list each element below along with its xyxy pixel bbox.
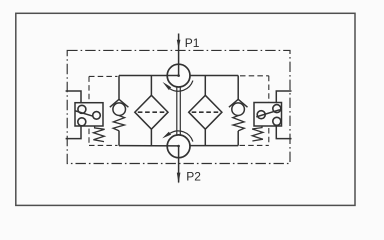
wire: upper rail left — [119, 75, 179, 77]
S1 contact right — [93, 112, 101, 120]
rotation arrow lower (arc) — [170, 131, 193, 142]
filter assembly boundary (dashed box) bottom-left segment — [89, 144, 118, 146]
wire: port P1 line — [178, 34, 180, 76]
rotation arrow upper (arc) — [170, 81, 193, 92]
wire: left check valve bottom lead — [118, 131, 120, 146]
border frame — [16, 13, 355, 205]
changeover valve spindle (twin lines) — [177, 87, 181, 135]
wire: left switch lower stub — [66, 126, 81, 139]
wire: right check valve top lead — [237, 76, 239, 100]
filter F1 (left diamond) — [135, 95, 168, 129]
wire: right switch lower stub — [276, 126, 291, 139]
S1 switch blade — [75, 111, 93, 116]
filter assembly boundary (dashed box) top-left segment — [89, 75, 118, 77]
filter F2 (right diamond) — [189, 95, 222, 129]
wire: right switch upper stub — [276, 91, 291, 103]
S2 switch blade — [256, 110, 280, 117]
flow arrow P2 (down) — [177, 173, 181, 184]
S1 contact bottom-left — [78, 118, 86, 126]
wire: F2 top lead — [204, 76, 206, 96]
check valve left ball — [113, 103, 126, 116]
S2 contact bottom-right — [273, 117, 281, 125]
S2 contact left — [257, 111, 265, 119]
filter F1 element (dashed line) — [138, 111, 165, 113]
changeover valve upper port circle — [167, 64, 190, 87]
rotation arrow upper (head) — [163, 82, 172, 90]
check valve right ball — [232, 103, 245, 116]
wire: F1 bottom lead — [150, 129, 152, 145]
check valve left spring — [113, 116, 125, 131]
wire: port P2 line — [178, 146, 180, 182]
check valve left seat — [110, 99, 129, 107]
rotation arrow lower (head) — [162, 132, 171, 139]
flow arrow P1 (down) — [177, 40, 181, 49]
wire: lower rail right — [190, 145, 238, 147]
wire: left check valve top lead — [118, 76, 120, 100]
filter assembly boundary (dashed box) bottom-right segment — [240, 144, 269, 146]
S1 contact top-left — [78, 105, 86, 113]
enclosure boundary (dash-dot box) — [67, 50, 290, 163]
pressure switch S1 body — [75, 103, 103, 126]
svg-text:P1: P1 — [185, 36, 200, 50]
wire: upper rail right — [190, 75, 238, 77]
filter F2 element (dashed line) — [192, 111, 219, 113]
wire: lower rail left — [119, 145, 179, 147]
S2 spring — [252, 126, 263, 141]
wire: right check valve bottom lead — [237, 131, 239, 146]
wire: left switch upper stub — [66, 91, 81, 103]
changeover valve lower port circle — [167, 135, 190, 158]
filter assembly boundary (dashed box) left edge — [88, 76, 90, 145]
junction: upper valve center — [177, 74, 180, 77]
wire: F1 top lead — [150, 76, 152, 96]
filter assembly boundary (dashed box) right edge — [268, 76, 270, 146]
check valve right seat — [229, 99, 248, 107]
S2 contact top-right — [273, 105, 281, 113]
junction: lower valve center — [177, 145, 180, 148]
check valve right spring — [233, 116, 245, 131]
svg-text:P2: P2 — [186, 169, 201, 183]
pressure switch S2 body — [254, 103, 282, 127]
S1 spring — [93, 126, 104, 142]
filter assembly boundary (dashed box) top-right segment — [240, 75, 269, 77]
wire: F2 bottom lead — [204, 129, 206, 145]
